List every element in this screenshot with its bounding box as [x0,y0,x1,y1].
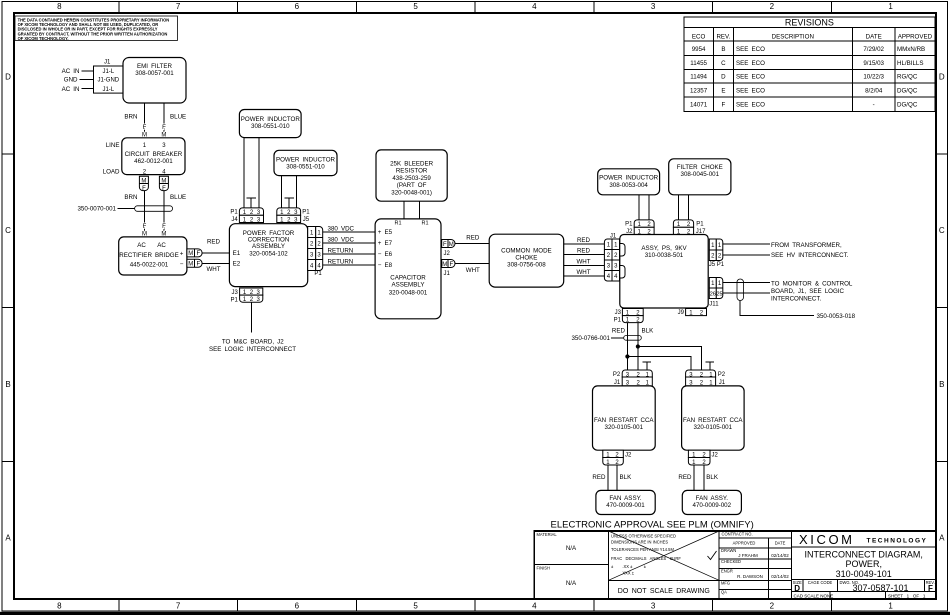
title block frame [534,531,936,599]
stub T on P1 pin 2 second strip [284,198,294,208]
connector J1 on PS left [604,233,619,281]
proprietary notice [15,16,178,41]
stub T fan restart 1 pin 1 [643,362,652,370]
wire RETURN to E8 [323,258,375,265]
svg-text:OF XICOM TECHNOLOGY.: OF XICOM TECHNOLOGY. [18,36,69,41]
connector P1/J17 on PS top right [673,220,706,235]
svg-text:7/29/02: 7/29/02 [863,46,884,53]
svg-text:EMI FILTER: EMI FILTER [137,63,173,70]
svg-text:445-0022-001: 445-0022-001 [130,262,169,269]
svg-text:4: 4 [532,2,537,11]
svg-text:F: F [449,262,453,268]
svg-text:M: M [141,179,146,185]
wire RED J3-1 to fan restart 1 pin 3 [626,323,628,370]
wire PS J11 pin2 to monitor [723,292,770,294]
svg-text:ENGR: ENGR [721,569,733,574]
svg-text:11455: 11455 [690,60,707,67]
svg-text:CAD SCALE NONE: CAD SCALE NONE [794,594,834,599]
svg-text:± .XX ± ±: ± .XX ± ± [611,564,647,569]
svg-text:310-0038-501: 310-0038-501 [645,252,684,259]
svg-text:RETURN: RETURN [328,258,354,265]
svg-text:462-0012-001: 462-0012-001 [134,158,173,165]
svg-text:DESCRIPTION: DESCRIPTION [772,34,814,41]
wire inductor2 lead 2 [296,176,298,208]
svg-text:REV.: REV. [716,34,730,41]
svg-text:RED: RED [678,474,692,481]
svg-text:M: M [449,242,454,248]
wire inductor lead 2 to P1 [648,195,650,220]
svg-text:D: D [5,73,11,82]
svg-text:M: M [188,251,193,257]
svg-text:FAN RESTART CCA: FAN RESTART CCA [683,417,743,424]
svg-text:12357: 12357 [690,87,708,94]
svg-text:307-0587-101: 307-0587-101 [852,583,908,593]
connector tab on PS left edge upper [620,244,625,257]
svg-text:SEE ECO: SEE ECO [736,46,765,53]
svg-text:J5 P1: J5 P1 [709,262,725,268]
svg-text:5: 5 [413,2,418,11]
zone letters left [5,73,11,543]
svg-text:TOLERANCES PER ANSI Y14.5M: TOLERANCES PER ANSI Y14.5M [611,547,674,552]
connector J2 fan restart 1 [603,450,632,466]
svg-text:N/A: N/A [566,580,577,587]
wire RED rectifier to PFC E1 [202,239,229,253]
svg-text:5: 5 [413,602,418,611]
svg-text:APPROVED: APPROVED [733,541,756,546]
connector plug M/F below breaker pin 4 [159,176,168,192]
svg-text:14071: 14071 [690,102,708,109]
wire WHT choke to PS pin 3 [564,259,605,266]
cable 350-0766-001 [571,335,641,342]
svg-text:RESISTOR: RESISTOR [396,168,428,175]
note TO MONITOR AND CONTROL [771,280,853,302]
svg-text:02/14/02: 02/14/02 [771,574,789,579]
svg-text:02/14/02: 02/14/02 [771,553,789,558]
svg-text:J1: J1 [614,380,621,386]
fan restart CCA 320-0105-001 first [593,386,656,450]
wire PS J5 pin1 to transformer [723,243,770,245]
svg-text:3: 3 [651,2,656,11]
svg-text:F: F [143,224,147,230]
svg-text:B: B [939,380,944,389]
wire 380 VDC to E5 [323,225,375,232]
svg-text:P2: P2 [613,372,621,378]
wire inductor2 lead 1 [281,176,283,208]
svg-text:J4: J4 [231,217,238,223]
wire inductor lead 1 to P1 [638,195,640,220]
svg-text:J2: J2 [625,452,632,458]
svg-text:D: D [939,73,945,82]
svg-text:POWER INDUCTOR: POWER INDUCTOR [599,175,659,182]
svg-text:P1: P1 [625,222,633,228]
svg-text:SEE HV INTERCONNECT.: SEE HV INTERCONNECT. [771,252,849,259]
svg-text:DO NOT SCALE DRAWING: DO NOT SCALE DRAWING [618,588,710,595]
svg-text:P1: P1 [230,210,238,216]
power inductor 308-0053-004 [598,169,660,195]
connector M/F rectifier output 1 [187,249,202,257]
svg-text:ASSEMBLY: ASSEMBLY [252,243,285,250]
svg-text:WHT: WHT [466,267,480,274]
wire EMI filter to circuit breaker BRN [124,103,147,139]
svg-text:ASSY, PS, 9KV: ASSY, PS, 9KV [641,245,687,252]
svg-text:M: M [188,262,193,268]
svg-text:BLK: BLK [620,474,633,481]
wire choke lead 1 to P1 [678,195,680,220]
capacitor assembly 320-0048-001 [375,219,441,319]
svg-text:438-2503-259: 438-2503-259 [392,175,431,182]
connector M/F rectifier output 2 [187,259,202,267]
circuit breaker 462-0012-001 [103,138,185,176]
connector P1/J2 on PS top left [625,220,654,235]
svg-text:6: 6 [295,2,300,11]
connector J9 on PS bottom [678,309,707,317]
svg-text:470-0009-002: 470-0009-002 [693,502,732,509]
svg-text:P1: P1 [302,210,310,216]
svg-text:DG/QC: DG/QC [897,102,918,109]
svg-text:A: A [939,534,945,543]
svg-text:4: 4 [532,602,537,611]
common mode choke 308-0756-008 [489,234,564,287]
wire BLK J3-2 to fan restart 1 pin 2 [637,323,639,370]
svg-text:F: F [196,262,200,268]
svg-text:308-0057-001: 308-0057-001 [135,70,174,77]
fan restart CCA 320-0105-001 second [682,386,745,450]
svg-text:320-0105-001: 320-0105-001 [694,424,733,431]
svg-text:J3: J3 [232,290,239,296]
cable 350-0070-001 [77,206,172,213]
svg-text:QA: QA [721,589,727,594]
svg-text:SEE ECO: SEE ECO [736,87,765,94]
svg-text:P1: P1 [314,271,322,277]
svg-text:P1: P1 [231,297,239,303]
svg-text:ASSEMBLY: ASSEMBLY [392,282,425,289]
svg-text:F: F [143,125,147,131]
assy PS 9KV 310-0038-501 [620,235,708,309]
svg-text:350-0053-018: 350-0053-018 [817,313,856,320]
zone letters right [939,73,945,543]
cable 350-0053-018 oval [737,279,744,301]
svg-text:J3: J3 [615,310,622,316]
svg-text:8: 8 [57,602,62,611]
connector plug M/F below breaker pin 2 [139,176,148,192]
wire WHT choke to PS pin 4 [564,269,605,276]
svg-text:WHT: WHT [576,269,590,276]
svg-text:+ E5: + E5 [378,229,393,236]
wire WHT capacitor to choke [455,264,489,275]
svg-text:BOARD, J1, SEE LOGIC: BOARD, J1, SEE LOGIC [771,288,845,295]
svg-text:E2: E2 [233,261,241,268]
connector J1 of EMI filter [94,60,124,94]
wire PS J11 pin1 to monitor [723,282,770,284]
svg-text:DATE: DATE [866,34,882,41]
wire 380 VDC to E7 [323,236,375,243]
wire breaker to rectifier BRN [142,191,147,238]
svg-text:8: 8 [57,2,62,11]
svg-text:HL/BILLS: HL/BILLS [897,60,923,67]
svg-text:DG/QC: DG/QC [897,87,918,94]
svg-text:BRN: BRN [124,194,137,201]
wire inductor1 lead 1 [243,138,245,208]
svg-text:350-0070-001: 350-0070-001 [77,206,116,213]
wire BLK branch to fan restart 2 pin 2 [638,347,702,371]
svg-text:J2: J2 [712,452,719,458]
svg-text:AC IN: AC IN [62,68,80,75]
svg-text:470-0009-001: 470-0009-001 [606,502,645,509]
svg-text:− E6: − E6 [378,251,393,258]
svg-text:320-0054-102: 320-0054-102 [249,251,288,258]
connector J5 P1 on PS right [709,239,725,268]
svg-text:J9: J9 [678,310,685,316]
svg-text:CHECKED: CHECKED [721,559,741,564]
svg-text:AC: AC [157,242,166,249]
svg-text:C: C [5,226,11,235]
svg-text:J FRAHM: J FRAHM [738,553,758,558]
svg-text:E1: E1 [233,250,241,257]
svg-text:1: 1 [888,602,893,611]
svg-text:RED: RED [207,239,221,246]
svg-text:(PART OF: (PART OF [397,182,427,189]
wire RETURN to E6 [323,247,375,254]
stub T on P1 pin 2 first strip [246,198,256,208]
svg-text:BLUE: BLUE [170,194,186,201]
connector J3/P1 on PFC bottom [231,288,263,303]
wire BLK fan restart 1 to fan assy 1 [617,465,632,490]
svg-text:RED: RED [466,235,480,242]
svg-text:9954: 9954 [692,46,706,53]
svg-text:J1: J1 [104,60,111,66]
svg-text:1: 1 [888,2,893,11]
leader 350-0053-018 [740,301,855,321]
svg-text:2: 2 [770,602,775,611]
svg-text:ELECTRONIC APPROVAL SEE PLM (O: ELECTRONIC APPROVAL SEE PLM (OMNIFY) [551,520,754,531]
node GND [64,77,94,84]
rectifier bridge 445-0022-001 [119,237,187,275]
wire PS J5 pin2 to transformer [723,254,770,256]
svg-text:320-0105-001: 320-0105-001 [605,424,644,431]
svg-text:B: B [721,46,725,53]
svg-text:+ E7: + E7 [378,240,393,247]
svg-text:RED: RED [577,248,591,255]
svg-text:J1: J1 [610,233,617,239]
svg-text:FINISH: FINISH [537,566,550,571]
svg-text:DRAWN: DRAWN [721,548,736,553]
svg-text:REVISIONS: REVISIONS [785,18,834,28]
svg-text:F: F [928,584,933,593]
svg-text:POWER,: POWER, [845,559,882,569]
wire EMI filter to circuit breaker BLUE [161,103,186,139]
svg-text:WHT: WHT [206,266,220,273]
svg-text:26: 26 [710,292,716,298]
svg-text:− E8: − E8 [378,262,393,269]
svg-text:A: A [5,534,11,543]
svg-text:25: 25 [716,292,722,298]
svg-text:P1: P1 [614,318,622,324]
approval column [719,532,791,599]
svg-text:FAN ASSY.: FAN ASSY. [696,495,729,502]
node AC IN line 2 [62,86,94,93]
svg-text:MMxN/RB: MMxN/RB [897,46,925,53]
svg-text:7: 7 [176,602,181,611]
ground symbol fan restart 2 [696,386,707,399]
stub T fan restart 2 pin 1 [706,362,715,370]
svg-text:J1: J1 [719,380,726,386]
note FROM TRANSFORMER [771,242,849,259]
svg-text:MATERIAL: MATERIAL [537,532,558,537]
EMI filter 308-0057-001 [123,58,186,104]
XICOM logo [791,532,936,547]
fan assy 470-0009-002 [682,490,741,514]
svg-text:CHOKE: CHOKE [515,255,537,262]
svg-text:RETURN: RETURN [328,247,354,254]
connector J2 fan restart 2 [688,450,718,466]
wire breaker to rectifier BLUE [161,191,166,238]
svg-text:2: 2 [770,2,775,11]
wire RED fan restart 1 to fan assy 1 [592,465,607,490]
connector J11 on PS right lower [709,278,723,308]
svg-text:AC: AC [137,242,146,249]
svg-text:BLUE: BLUE [170,114,186,121]
wire RED fan restart 2 to fan assy 2 [678,465,693,490]
svg-text:F: F [162,224,166,230]
svg-text:LINE: LINE [106,142,120,149]
svg-text:MFG: MFG [721,580,730,585]
wire RED branch to fan restart 2 pin 3 [627,357,691,371]
svg-text:APPROVED: APPROVED [898,34,933,41]
svg-text:RED: RED [592,474,606,481]
svg-text:GND: GND [64,77,78,84]
svg-text:SHEET 1 OF 1: SHEET 1 OF 1 [888,594,926,599]
svg-text:R. DAWSON: R. DAWSON [737,574,763,579]
svg-text:XICOM: XICOM [799,532,855,547]
zone numbers bottom [57,602,893,611]
svg-text:BLK: BLK [706,474,719,481]
title text [791,550,936,580]
svg-text:308-0551-010: 308-0551-010 [286,163,325,170]
svg-text:25K BLEEDER: 25K BLEEDER [390,161,434,168]
svg-text:INTERCONNECT.: INTERCONNECT. [771,296,821,303]
svg-text:POWER INDUCTOR: POWER INDUCTOR [241,116,301,123]
connector P1 on PFC right [308,227,323,277]
svg-text:AC IN: AC IN [62,86,80,93]
svg-text:J1-L: J1-L [102,69,114,75]
svg-text:J1-L: J1-L [102,87,114,93]
svg-text:9/15/03: 9/15/03 [863,60,884,67]
svg-text:F: F [722,102,726,109]
tolerance cell [609,531,720,595]
svg-text:D: D [721,74,726,81]
svg-text:LOAD: LOAD [103,169,120,176]
connector tab on PS left edge lower [620,266,625,279]
connector P2/J1 fan restart 2 [686,370,726,386]
svg-text:INTERCONNECT DIAGRAM,: INTERCONNECT DIAGRAM, [805,550,923,560]
svg-text:RED: RED [612,327,626,334]
revisions table [684,17,935,112]
svg-text:DATE: DATE [775,541,786,546]
svg-text:CAGE CODE: CAGE CODE [808,580,833,585]
svg-text:RED: RED [577,237,591,244]
size cage dwg rev row [791,580,936,593]
wire PFC J3 to M&C board [250,302,252,332]
svg-text:3: 3 [651,602,656,611]
svg-text:.XXX ±: .XXX ± [611,570,635,575]
connector P1/J5 on PFC top right [277,208,311,223]
svg-text:SEE ECO: SEE ECO [736,102,765,109]
wire BLK fan restart 2 to fan assy 2 [704,465,719,490]
svg-text:TECHNOLOGY: TECHNOLOGY [867,537,928,544]
svg-text:FAN ASSY.: FAN ASSY. [609,495,642,502]
svg-text:M: M [442,262,447,268]
svg-text:R1: R1 [422,221,429,227]
wire bleeder lead R1 right [418,201,420,219]
svg-text:11494: 11494 [690,74,707,81]
svg-text:380 VDC: 380 VDC [328,236,355,243]
svg-text:POWER INDUCTOR: POWER INDUCTOR [276,156,336,163]
node AC IN line 1 [62,68,94,75]
scale sheet row [794,592,926,599]
wire bleeder lead R1 left [403,201,405,219]
junction dot BLK branch [636,344,640,348]
svg-text:R1: R1 [394,221,401,227]
note TO M&C BOARD [209,338,296,353]
svg-text:380 VDC: 380 VDC [328,225,355,232]
svg-text:M: M [161,179,166,185]
wire inductor1 lead 2 [258,138,260,208]
svg-text:C: C [721,60,726,67]
svg-text:FAN RESTART CCA: FAN RESTART CCA [594,417,654,424]
svg-text:BRN: BRN [124,114,137,121]
svg-text:CONTRACT NO.: CONTRACT NO. [722,532,753,537]
svg-text:−: − [180,261,184,268]
svg-text:RECTIFIER BRIDGE: RECTIFIER BRIDGE [119,252,179,259]
svg-text:CIRCUIT BREAKER: CIRCUIT BREAKER [125,151,183,158]
fan assy 470-0009-001 [596,490,655,514]
svg-text:D: D [794,584,800,593]
svg-text:10/22/3: 10/22/3 [863,74,884,81]
svg-text:SEE ECO: SEE ECO [736,60,765,67]
svg-text:SEE LOGIC INTERCONNECT: SEE LOGIC INTERCONNECT [209,346,296,353]
connector P2/J1 fan restart 1 [613,370,652,386]
svg-text:308-0756-008: 308-0756-008 [507,262,546,269]
wire choke lead 2 to P1 [688,195,690,220]
svg-text:310-0049-101: 310-0049-101 [836,569,892,579]
filter choke 308-0045-001 [669,159,731,195]
svg-text:350-0766-001: 350-0766-001 [571,335,610,342]
svg-text:CAPACITOR: CAPACITOR [390,275,426,282]
svg-text:RG/QC: RG/QC [897,74,918,81]
svg-text:308-0053-004: 308-0053-004 [609,182,648,189]
svg-text:J1: J1 [444,271,451,277]
svg-text:E: E [721,87,725,94]
connector J3/P1 on PS bottom [614,309,644,324]
svg-text:J5: J5 [303,217,310,223]
wire RED capacitor to choke [455,235,489,244]
25K bleeder resistor 438-2503-259 [376,150,447,201]
svg-text:FRAC DECIMALS ANGLES SUR: FRAC DECIMALS ANGLES SURF [611,556,681,561]
svg-text:SEE ECO: SEE ECO [736,74,765,81]
svg-text:N/A: N/A [566,545,577,552]
svg-text:P1: P1 [696,222,704,228]
svg-text:F: F [443,242,447,248]
svg-text:FILTER CHOKE: FILTER CHOKE [677,164,723,171]
svg-text:WHT: WHT [576,259,590,266]
connector P1/J4 on PFC top left [230,208,263,223]
svg-text:6: 6 [295,602,300,611]
wire RED choke to PS pin 1 [564,237,605,244]
svg-text:C: C [939,226,945,235]
svg-text:ECO: ECO [692,34,706,41]
svg-text:-: - [873,102,875,109]
svg-text:DIMENSIONS ARE IN INCHES: DIMENSIONS ARE IN INCHES [611,540,668,545]
